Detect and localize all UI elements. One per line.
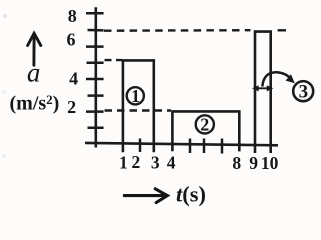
- bar 1 (t=1..3, a=5): [123, 60, 154, 152]
- y tick a=5: [87, 62, 104, 65]
- double-headed width arrow inside bar 3: [253, 86, 273, 91]
- y tick a=4: [86, 78, 104, 81]
- faint smudge bottom-left: [2, 154, 6, 158]
- x tick t=2: [139, 139, 142, 153]
- circled 3 marker: [293, 81, 313, 102]
- svg-text:2: 2: [67, 97, 76, 117]
- y tick a=6: [86, 45, 104, 48]
- svg-text:3: 3: [151, 152, 160, 172]
- bar 2 (t=4..8, a=2): [172, 111, 239, 151]
- x tick t=5: [189, 139, 192, 154]
- up arrow (y-axis symbol): [28, 33, 41, 65]
- y tick a=7: [88, 29, 104, 32]
- svg-text:8: 8: [68, 6, 77, 26]
- svg-text:8: 8: [232, 153, 241, 173]
- dashed line a=5: [105, 59, 123, 61]
- svg-text:4: 4: [69, 68, 78, 88]
- svg-text:4: 4: [167, 152, 176, 172]
- svg-text:1: 1: [131, 86, 140, 106]
- y tick a=3: [88, 94, 104, 97]
- svg-text:1: 1: [119, 152, 128, 172]
- y-axis: [95, 7, 98, 147]
- x-axis: [85, 143, 278, 145]
- dashed line a=2: [105, 109, 172, 111]
- svg-text:9: 9: [249, 153, 258, 173]
- x tick t=6: [203, 139, 206, 154]
- curved arrow from circle 3 to bar 3: [262, 72, 295, 86]
- right arrow (x-axis symbol): [124, 189, 167, 203]
- dashed line a=7: [104, 29, 251, 32]
- y tick a=8: [86, 12, 104, 15]
- svg-text:2: 2: [132, 152, 141, 172]
- x tick t=7: [221, 139, 224, 154]
- y tick a=2: [86, 110, 104, 113]
- circled 2 marker: [196, 115, 214, 135]
- svg-text:6: 6: [67, 30, 76, 50]
- svg-text:(m/s2): (m/s2): [10, 92, 60, 115]
- faint smudge top-left: [3, 14, 7, 18]
- svg-text:10: 10: [261, 153, 279, 173]
- svg-text:2: 2: [200, 115, 209, 135]
- dashed line a=7 right of bar 3: [278, 29, 286, 31]
- y tick a=1: [88, 126, 104, 129]
- svg-text:3: 3: [299, 82, 309, 103]
- faint smudge left-middle: [2, 90, 6, 94]
- svg-text:a: a: [27, 58, 41, 88]
- svg-text:t(s): t(s): [176, 182, 206, 207]
- circled 1 marker: [127, 86, 144, 106]
- bar 3 (t=9..10, a=7): [255, 32, 271, 153]
